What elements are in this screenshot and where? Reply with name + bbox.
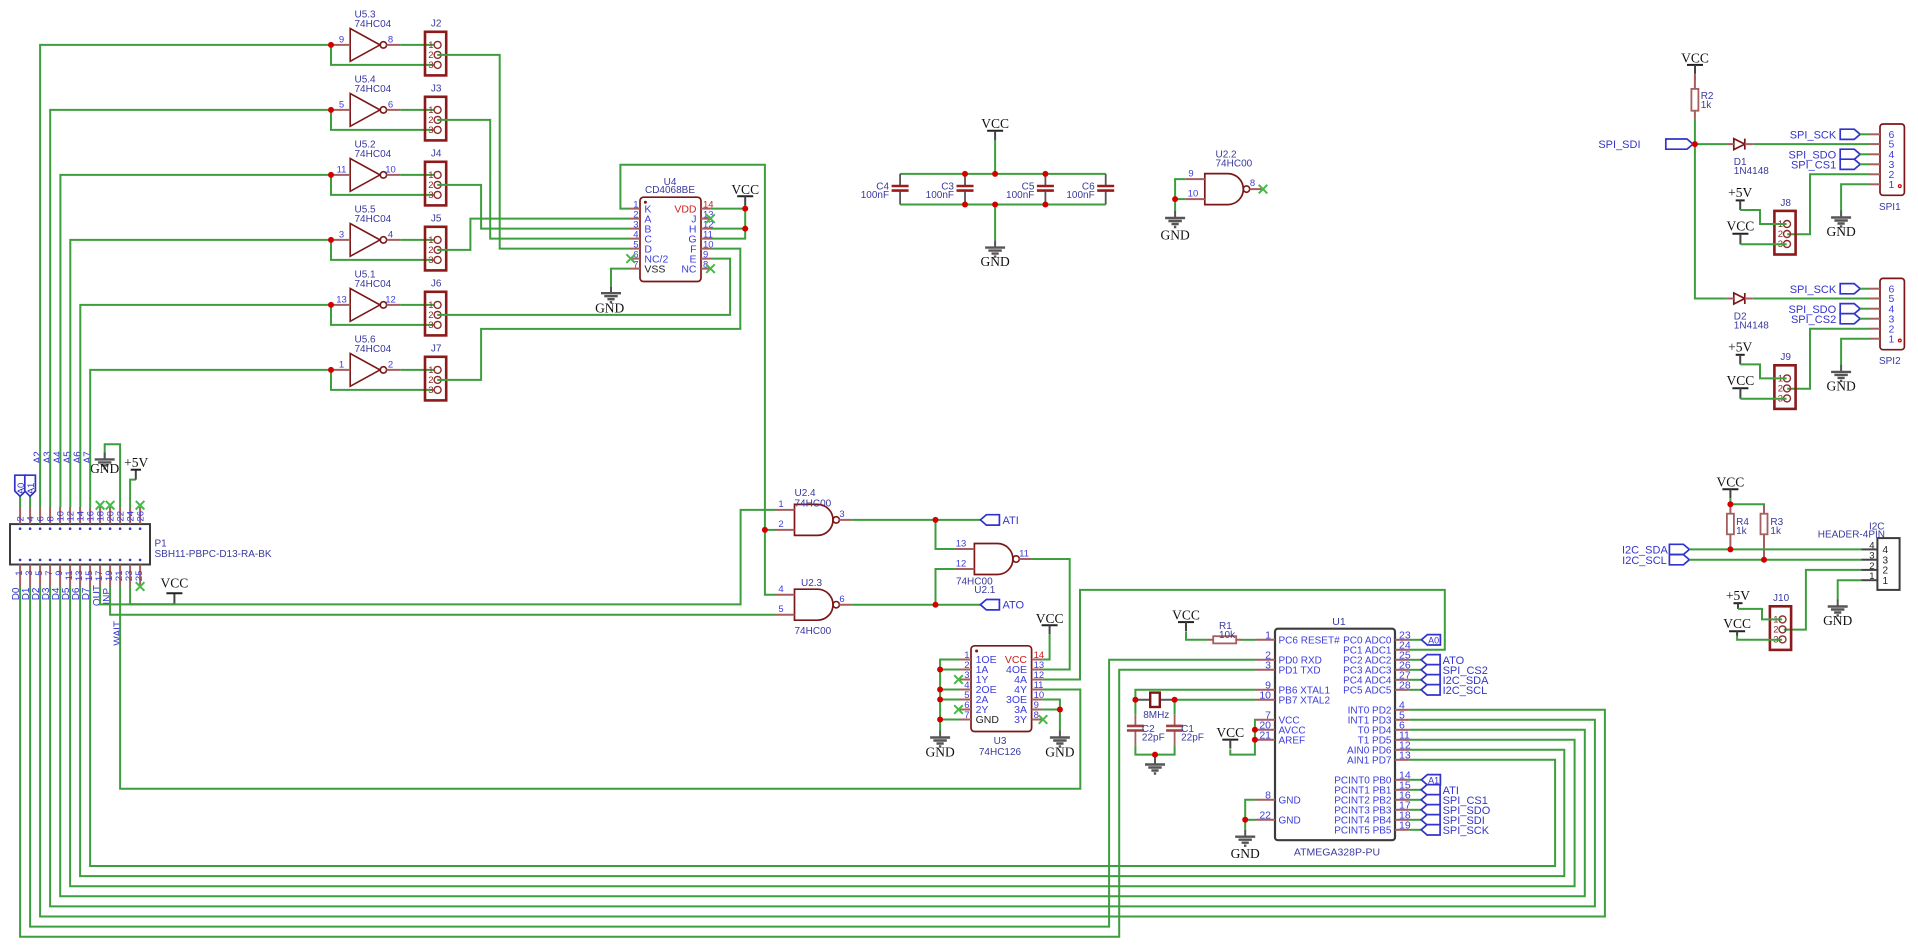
svg-text:1: 1: [1889, 179, 1895, 191]
connector J2: [425, 19, 446, 76]
svg-text:74HC00: 74HC00: [1216, 159, 1253, 170]
svg-text:6: 6: [839, 594, 844, 605]
no-connect U4 pin 6: [626, 254, 635, 263]
svg-text:1: 1: [778, 499, 783, 510]
junction U1 pin22: [1242, 817, 1248, 823]
svg-text:100nF: 100nF: [1006, 190, 1034, 201]
connector J5: [425, 214, 446, 271]
svg-text:1k: 1k: [1701, 100, 1713, 111]
capacitor C4 leads: [899, 174, 901, 205]
svg-text:3: 3: [839, 509, 844, 520]
ground GND at caps: [980, 241, 1009, 269]
power VCC at J8: [1727, 218, 1755, 244]
svg-text:VCC: VCC: [1681, 50, 1709, 65]
svg-text:VSS: VSS: [644, 263, 665, 275]
net label SPI_SDI: [1421, 815, 1485, 827]
net label SPI_SDO: [1421, 805, 1491, 817]
svg-text:VCC: VCC: [731, 182, 759, 197]
no-connect U3 pin 3: [954, 675, 963, 684]
inverter U5.3 (74HC04): [331, 10, 400, 62]
junction U5.1 input: [328, 302, 334, 308]
wire net ATO: [852, 604, 980, 606]
svg-text:P1: P1: [155, 539, 168, 550]
diode D2: [1727, 293, 1769, 332]
wire net D3 to U1: [50, 587, 1595, 907]
svg-text:SPI2: SPI2: [1879, 356, 1901, 367]
svg-text:I2C_SCL: I2C_SCL: [1622, 555, 1667, 567]
svg-text:HEADER-4PIN: HEADER-4PIN: [1818, 529, 1885, 540]
net label I2C_SDA: [1622, 545, 1669, 557]
svg-text:13: 13: [956, 538, 967, 549]
connector J4: [425, 149, 446, 206]
wire U3 pin 5 branch: [940, 699, 960, 701]
node OUT: [92, 585, 103, 606]
svg-text:3: 3: [428, 385, 433, 396]
svg-text:1: 1: [1869, 571, 1874, 582]
wire U1 to SPI_SDI: [1409, 819, 1421, 821]
svg-text:AIN1 PD7: AIN1 PD7: [1347, 756, 1392, 767]
svg-text:U2.1: U2.1: [974, 585, 996, 596]
svg-text:+5V: +5V: [124, 455, 148, 470]
wire SPI_CS1 to SPI1: [1860, 163, 1870, 165]
junction U5.5 input: [328, 237, 334, 243]
svg-text:74HC00: 74HC00: [795, 626, 832, 637]
svg-text:CD4068BE: CD4068BE: [645, 185, 695, 196]
junction U5.6 input: [328, 367, 334, 373]
node WAIT: [112, 621, 123, 646]
wire U5.4 out to J3 pin1: [400, 109, 434, 111]
svg-text:J8: J8: [1780, 198, 1791, 209]
svg-text:2: 2: [778, 519, 783, 530]
svg-text:VCC: VCC: [1036, 611, 1064, 626]
svg-text:3: 3: [428, 190, 433, 201]
svg-text:5: 5: [778, 604, 783, 615]
wire SPI_SCK to SPI1: [1860, 133, 1870, 135]
inverter U5.1 (74HC04): [331, 270, 400, 322]
junction crystal left: [1132, 697, 1138, 703]
svg-text:A0: A0: [1428, 635, 1439, 645]
svg-text:VCC: VCC: [1172, 608, 1200, 623]
wire net ATI: [852, 519, 980, 521]
no-connect U3 pin 6: [954, 705, 963, 714]
wire VCC to R1: [1186, 632, 1207, 640]
junction U4 VDD: [742, 206, 748, 212]
wire U1 to SPI_SCK: [1409, 829, 1421, 831]
svg-text:WAIT: WAIT: [112, 621, 123, 646]
wire P1 pin23 to VCC: [130, 587, 174, 605]
svg-text:3: 3: [428, 125, 433, 136]
ground GND at SPI1: [1826, 211, 1855, 240]
power VCC at I2C: [1717, 475, 1745, 499]
power VCC at J9: [1727, 373, 1755, 399]
wire SPI2 pin2 to J9 pin2: [1787, 329, 1870, 389]
wire U1 GND pins: [1245, 800, 1256, 830]
power VCC at R2: [1681, 50, 1709, 74]
svg-text:74HC04: 74HC04: [355, 279, 392, 290]
svg-text:NC: NC: [681, 263, 697, 275]
wire VCC to U4 pin11 G: [711, 205, 745, 239]
no-connect U4 pin 8: [706, 264, 715, 273]
svg-text:U1: U1: [1332, 616, 1346, 628]
ground GND at U3 right: [1045, 731, 1074, 760]
inverter U5.4 (74HC04): [331, 75, 400, 127]
svg-text:J10: J10: [1773, 593, 1790, 604]
svg-text:GND: GND: [980, 254, 1009, 269]
svg-text:J3: J3: [431, 84, 442, 95]
svg-text:+5V: +5V: [1726, 588, 1750, 603]
svg-text:U2.3: U2.3: [801, 578, 823, 589]
wire net D4 to U1: [60, 587, 1585, 897]
wire U5.6 feedback to J7 pin3: [331, 370, 434, 390]
svg-text:25: 25: [134, 571, 145, 582]
connector J8: [1774, 198, 1795, 255]
svg-text:GND: GND: [1826, 379, 1855, 394]
wire branch pin22: [1245, 819, 1256, 821]
wire net D2 to U1: [40, 587, 1605, 917]
svg-text:1: 1: [1265, 629, 1271, 641]
capacitor C3 leads: [964, 174, 966, 205]
power VCC at caps: [981, 116, 1009, 140]
wire net A2 to U5.3: [40, 45, 331, 507]
svg-text:GND: GND: [925, 745, 954, 760]
svg-text:100nF: 100nF: [861, 190, 889, 201]
connector P1 SBH11-PBPC-D13-RA-BK: [10, 507, 272, 587]
net label ATO: [1421, 655, 1465, 667]
svg-text:10: 10: [1188, 188, 1199, 199]
wire U5.5 feedback to J5 pin3: [331, 240, 434, 260]
svg-text:9: 9: [1188, 169, 1193, 180]
ground GND at I2C: [1823, 600, 1852, 629]
junction U5.2 input: [328, 172, 334, 178]
capacitor C5 leads: [1044, 174, 1046, 205]
net label SPI_SDI: [1598, 139, 1640, 151]
svg-text:11: 11: [1019, 548, 1029, 559]
wire SPI2 pin1 to GND: [1841, 339, 1870, 366]
svg-text:PCINT5 PB5: PCINT5 PB5: [1334, 826, 1392, 837]
net label I2C_SCL: [1421, 685, 1487, 697]
svg-text:1: 1: [339, 359, 344, 370]
no-connect P1 pin 18: [96, 501, 105, 510]
svg-text:2: 2: [388, 359, 393, 370]
wire net OUT to U2.4 pin1: [100, 510, 775, 605]
svg-text:74HC04: 74HC04: [355, 84, 392, 95]
net label SPI_SCK: [1421, 825, 1490, 837]
net label SPI_SCK (SPI1): [1790, 130, 1837, 142]
wire P1 pin22 to GND: [105, 444, 120, 507]
wire branch AREF: [1255, 739, 1256, 741]
net label SPI_CS2 (SPI2): [1791, 314, 1836, 326]
junction ATI to U2.1: [933, 517, 939, 523]
svg-text:GND: GND: [1279, 816, 1301, 827]
wire U5.2 out to J4 pin1: [400, 174, 434, 176]
wire ATO to U2.1 pin12: [936, 569, 955, 605]
wire SPI_SCK to SPI2: [1860, 288, 1870, 290]
wire U2.2 inputs to GND: [1175, 179, 1185, 212]
wire VCC to J8 pin3: [1740, 243, 1786, 245]
junction R3 to SCL: [1761, 557, 1767, 563]
wire U1 XTAL2 to crystal: [1175, 699, 1256, 701]
svg-text:26: 26: [136, 511, 147, 522]
svg-text:74HC04: 74HC04: [355, 19, 392, 30]
wire net I2C_SDA to header pin4: [1689, 548, 1861, 550]
no-connect U4 pin 13: [706, 214, 715, 223]
diode D1: [1727, 139, 1769, 178]
wire SPI_SDO to SPI1: [1860, 153, 1870, 155]
wire U1 to ATO: [1409, 659, 1421, 661]
wire net INP to U2.3 pin5: [110, 587, 775, 615]
net label I2C_SDA: [1421, 675, 1489, 687]
wire J4 pin2 to U4 pin3 B: [437, 185, 630, 229]
ground GND at crystal: [1145, 758, 1165, 774]
svg-text:GND: GND: [1279, 796, 1301, 807]
svg-text:12: 12: [385, 294, 396, 305]
svg-text:+5V: +5V: [1728, 185, 1752, 200]
svg-text:VCC: VCC: [1727, 218, 1755, 233]
wire U1 PB0 to A1: [1409, 779, 1422, 781]
resistor R4: [1727, 514, 1749, 537]
IC U4 CD4068BE: [630, 177, 714, 281]
svg-text:13: 13: [336, 294, 347, 305]
svg-text:SPI_SCK: SPI_SCK: [1443, 825, 1490, 837]
no-connect U2.2 pin 8 output: [1259, 185, 1268, 194]
wire R2 to SPI_SDI: [1694, 119, 1696, 144]
svg-text:U3: U3: [994, 736, 1007, 747]
junction U3 pin 5: [937, 697, 943, 703]
svg-text:74HC04: 74HC04: [355, 214, 392, 225]
svg-text:A1: A1: [26, 483, 37, 495]
resistor R3: [1761, 514, 1784, 537]
wire net A7 to U5.6: [90, 370, 331, 507]
power +5V at J8: [1728, 185, 1752, 210]
no-connect P1 pin 26: [136, 501, 145, 510]
svg-text:J2: J2: [431, 19, 442, 30]
wire to C1: [1174, 700, 1176, 715]
net label A0 (P1): [15, 475, 27, 507]
wire U1 PC0 to A0: [1409, 639, 1422, 641]
svg-text:GND: GND: [1826, 224, 1855, 239]
svg-text:PB7 XTAL2: PB7 XTAL2: [1279, 696, 1331, 707]
ground GND at U2.2: [1160, 211, 1189, 243]
wire SPI_SDO to SPI2: [1860, 308, 1870, 310]
wire VCC to R3/R4: [1729, 498, 1731, 504]
svg-text:VCC: VCC: [981, 116, 1009, 131]
junction caps GND: [1152, 752, 1158, 758]
svg-text:VCC: VCC: [1216, 725, 1244, 740]
junction VCC rail: [1042, 171, 1048, 177]
svg-text:GND: GND: [1823, 613, 1852, 628]
svg-text:ATMEGA328P-PU: ATMEGA328P-PU: [1294, 847, 1380, 859]
net label SPI_CS2: [1421, 665, 1488, 677]
wire branch AVCC: [1255, 729, 1256, 731]
wire U3 pins to GND: [940, 660, 960, 731]
capacitor C6: [1066, 181, 1114, 201]
wire J7 pin2 to U4 pin10 F: [437, 249, 740, 380]
wire branch U2.2 pin10: [1175, 198, 1185, 200]
ground GND at U1: [1231, 830, 1260, 861]
wire SPI_SDI to D2: [1695, 144, 1727, 298]
svg-text:4: 4: [778, 584, 783, 595]
svg-text:1: 1: [1889, 333, 1895, 345]
svg-text:8: 8: [1265, 789, 1271, 801]
P1 data pin names D0-D7: [11, 587, 92, 600]
wire net D7 to U1: [90, 587, 1555, 867]
wire net A6 to U5.1: [80, 305, 331, 507]
wire caps to GND rail: [1135, 745, 1174, 754]
wire U5.1 out to J6 pin1: [400, 304, 434, 306]
net label I2C_SCL: [1622, 555, 1667, 567]
svg-text:10: 10: [385, 164, 396, 175]
wire net WAIT: U3 4Y to P1 pin21: [120, 587, 1080, 789]
NAND gate U2.1 (74HC00): [955, 544, 1032, 575]
wire U5.6 out to J7 pin1: [400, 369, 434, 371]
svg-text:GND: GND: [976, 714, 1000, 726]
wire J6 pin2 to U4 pin9 E: [437, 259, 730, 315]
svg-text:ATI: ATI: [1003, 515, 1019, 527]
wire SPI_CS2 to SPI2: [1860, 318, 1870, 320]
wire U5.3 out to J2 pin1: [400, 44, 434, 46]
svg-text:J6: J6: [431, 279, 442, 290]
connector J10: [1770, 593, 1791, 650]
svg-text:3: 3: [339, 229, 344, 240]
power VCC at U3: [1036, 611, 1064, 635]
junction U2.2 pin10: [1172, 196, 1178, 202]
svg-text:1k: 1k: [1770, 526, 1782, 537]
svg-text:I2C_SCL: I2C_SCL: [1443, 685, 1488, 697]
wire VCC lead (R2): [1694, 76, 1696, 80]
wire U1 to SPI_SDO: [1409, 809, 1421, 811]
inverter U5.5 (74HC04): [331, 205, 400, 257]
wire U4 VDD to VCC: [711, 208, 745, 210]
junction AVCC: [1252, 727, 1258, 733]
wire VCC rail (caps): [900, 173, 1106, 175]
ground GND at U3 left: [925, 731, 954, 760]
svg-text:21: 21: [1259, 729, 1271, 741]
ground GND at SPI2: [1826, 365, 1855, 394]
junction GND rail: [1042, 202, 1048, 208]
power VCC at AVCC: [1216, 725, 1244, 749]
wire to C2: [1134, 700, 1136, 715]
ground GND at U4: [595, 286, 624, 315]
wire D2 to SPI2 pin5: [1753, 298, 1870, 300]
svg-text:PC6 RESET#: PC6 RESET#: [1279, 636, 1341, 647]
wire header pin1 to GND: [1838, 580, 1862, 600]
svg-text:1k: 1k: [1736, 526, 1748, 537]
svg-text:22: 22: [1259, 809, 1271, 821]
power VCC at P1: [161, 576, 189, 605]
power VCC at J10: [1723, 616, 1751, 636]
no-connect P1 pin 20: [106, 501, 115, 510]
junction SPI_SDI junction: [1692, 141, 1698, 147]
wire U3 pin 2 branch: [940, 669, 960, 671]
svg-text:74HC126: 74HC126: [979, 747, 1022, 758]
svg-text:9: 9: [339, 34, 344, 45]
junction GND rail: [962, 202, 968, 208]
net label ATO: [980, 600, 1024, 612]
junction AREF: [1252, 737, 1258, 743]
wire U1 to ATI: [1409, 789, 1421, 791]
junction GND rail: [992, 202, 998, 208]
connector J9: [1774, 352, 1795, 409]
svg-text:100nF: 100nF: [926, 190, 954, 201]
IC U3 74HC126: [960, 646, 1044, 758]
NAND gate U2.3 (74HC00): [775, 589, 852, 620]
crystal Y1 8MHz: [1135, 693, 1174, 721]
svg-text:11: 11: [337, 164, 347, 175]
svg-text:8: 8: [388, 34, 393, 45]
svg-text:J9: J9: [1780, 352, 1791, 363]
power +5V at J10: [1726, 588, 1750, 609]
wire U1 to SPI_CS2: [1409, 669, 1421, 671]
node INP: [102, 588, 113, 605]
svg-text:3: 3: [428, 320, 433, 331]
net label A1: [1421, 775, 1440, 786]
wire +5V to J10 pin1: [1738, 609, 1782, 620]
svg-text:ATO: ATO: [1003, 600, 1025, 612]
power VCC at U4: [731, 182, 759, 206]
junction U3 pin 7: [937, 717, 943, 723]
svg-text:74HC04: 74HC04: [355, 344, 392, 355]
wire header pin2 to J10 pin2: [1784, 570, 1862, 630]
wire SPI_SDI to D1: [1695, 143, 1727, 145]
wire U5.2 feedback to J4 pin3: [331, 175, 434, 195]
wire U2.1 out to U3 pin13: [1032, 559, 1070, 670]
inverter U5.6 (74HC04): [331, 335, 400, 387]
junction U4-K / U2.4 pin2: [762, 527, 768, 533]
wire net A3 to U5.4: [50, 110, 331, 507]
svg-text:+5V: +5V: [1728, 340, 1752, 355]
wire SPI1 pin2 to J8 pin2: [1787, 174, 1870, 234]
svg-text:AREF: AREF: [1279, 736, 1306, 747]
wire net I2C_SCL to header pin3: [1689, 559, 1861, 561]
P1 bus pin names A2-A7: [33, 451, 94, 464]
capacitor C6 leads: [1105, 174, 1107, 205]
capacitor C2: [1127, 724, 1165, 744]
wire U3 3A to GND: [1043, 710, 1060, 731]
wire branch to U2.4 pin2: [765, 529, 776, 531]
net label SPI_CS1 (SPI1): [1791, 160, 1836, 172]
svg-text:PC5 ADC5: PC5 ADC5: [1343, 686, 1392, 697]
wire net D6 to U1: [80, 587, 1564, 877]
wire U3 pin 4 branch: [940, 689, 960, 691]
wire U1 to I2C_SCL: [1409, 689, 1421, 691]
svg-text:GND: GND: [1045, 745, 1074, 760]
connector I2C HEADER-4PIN: [1818, 521, 1900, 589]
connector SPI2: [1870, 278, 1904, 367]
junction VCC rail: [992, 171, 998, 177]
wire J2 pin2 to U4 pin5 D: [437, 55, 630, 249]
wire J5 pin2 to U4 pin2 A: [437, 219, 630, 250]
junction R4 to SDA: [1727, 546, 1733, 552]
svg-text:7: 7: [964, 710, 969, 721]
svg-text:3: 3: [428, 60, 433, 71]
wire SPI1 pin1 to GND: [1841, 184, 1870, 211]
junction U3 pin9: [1057, 707, 1063, 713]
svg-text:22pF: 22pF: [1181, 733, 1204, 744]
junction VCC rail: [962, 171, 968, 177]
wire U3 pin 7 branch: [940, 719, 960, 721]
junction R4 top: [1727, 501, 1733, 507]
svg-text:VCC: VCC: [1727, 373, 1755, 388]
connector J7: [425, 344, 446, 401]
wire cap rail to GND: [994, 205, 996, 241]
power VCC at R1: [1172, 608, 1200, 632]
svg-text:SPI1: SPI1: [1879, 202, 1901, 213]
svg-text:10: 10: [1259, 689, 1271, 701]
wire J3 pin2 to U4 pin4 C: [437, 120, 630, 239]
wire U3 3OE to 3A: [1043, 700, 1060, 710]
no-connect P1 pin 25: [136, 582, 145, 591]
wire VCC to J10 pin3: [1737, 636, 1782, 640]
